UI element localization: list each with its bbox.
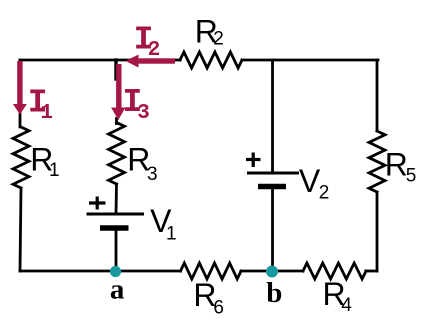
battery V1 negative plate <box>100 225 129 231</box>
label R1 <box>30 141 59 181</box>
current arrow I2 <box>126 55 176 68</box>
wire V1 to node a <box>115 229 118 271</box>
battery V1 positive plate <box>87 213 145 216</box>
battery V2 plus sign <box>246 153 261 168</box>
svg-text:3: 3 <box>137 102 150 125</box>
svg-text:1: 1 <box>40 102 53 125</box>
svg-text:1: 1 <box>166 223 177 244</box>
label V1 <box>150 203 176 244</box>
wire top rail left segment <box>20 59 180 62</box>
label R2 <box>195 13 224 49</box>
wire bottom rail mid <box>241 270 303 273</box>
resistor R4 <box>303 263 366 279</box>
svg-text:6: 6 <box>213 297 224 318</box>
wire left rail lower <box>20 188 21 271</box>
resistor R3 <box>109 123 125 185</box>
svg-text:b: b <box>266 277 282 309</box>
current arrow I1 <box>13 61 27 115</box>
svg-text:1: 1 <box>49 160 60 181</box>
label I2 <box>134 21 161 62</box>
wire bottom right corner <box>366 270 377 273</box>
battery V2 positive plate <box>247 172 299 175</box>
svg-text:2: 2 <box>213 28 224 49</box>
label I3 <box>123 84 150 125</box>
wire right rail upper <box>376 60 379 131</box>
battery V2 negative plate <box>258 184 286 190</box>
wire V2 to node b <box>271 187 274 271</box>
label R3 <box>127 141 157 185</box>
label R5 <box>385 147 417 187</box>
resistor R5 <box>369 131 385 192</box>
svg-text:3: 3 <box>147 164 158 185</box>
svg-text:2: 2 <box>319 183 330 204</box>
label R4 <box>323 276 353 316</box>
svg-text:a: a <box>110 274 125 306</box>
node b <box>266 266 278 278</box>
label V2 <box>299 163 329 204</box>
resistor R6 <box>181 263 242 279</box>
wire top rail right segment <box>242 59 378 62</box>
wire right rail lower <box>376 192 379 271</box>
node a <box>110 266 121 277</box>
svg-text:5: 5 <box>406 166 417 187</box>
wire bottom rail <box>20 270 181 273</box>
svg-text:R: R <box>385 147 408 183</box>
svg-text:V: V <box>299 163 321 199</box>
wire R3 to V1 <box>115 184 118 214</box>
svg-text:2: 2 <box>148 39 161 62</box>
label R6 <box>193 277 224 319</box>
wire V2 branch upper <box>271 60 274 172</box>
resistor R1 <box>13 127 29 188</box>
svg-text:4: 4 <box>341 295 352 316</box>
wire stub above R3 <box>115 119 118 124</box>
wire middle branch stub under junction <box>114 60 117 79</box>
label I1 <box>28 84 53 125</box>
wire left rail <box>19 60 22 127</box>
battery V1 plus sign <box>89 197 106 210</box>
current arrow I3 <box>111 64 125 120</box>
resistor R2 <box>180 52 242 68</box>
